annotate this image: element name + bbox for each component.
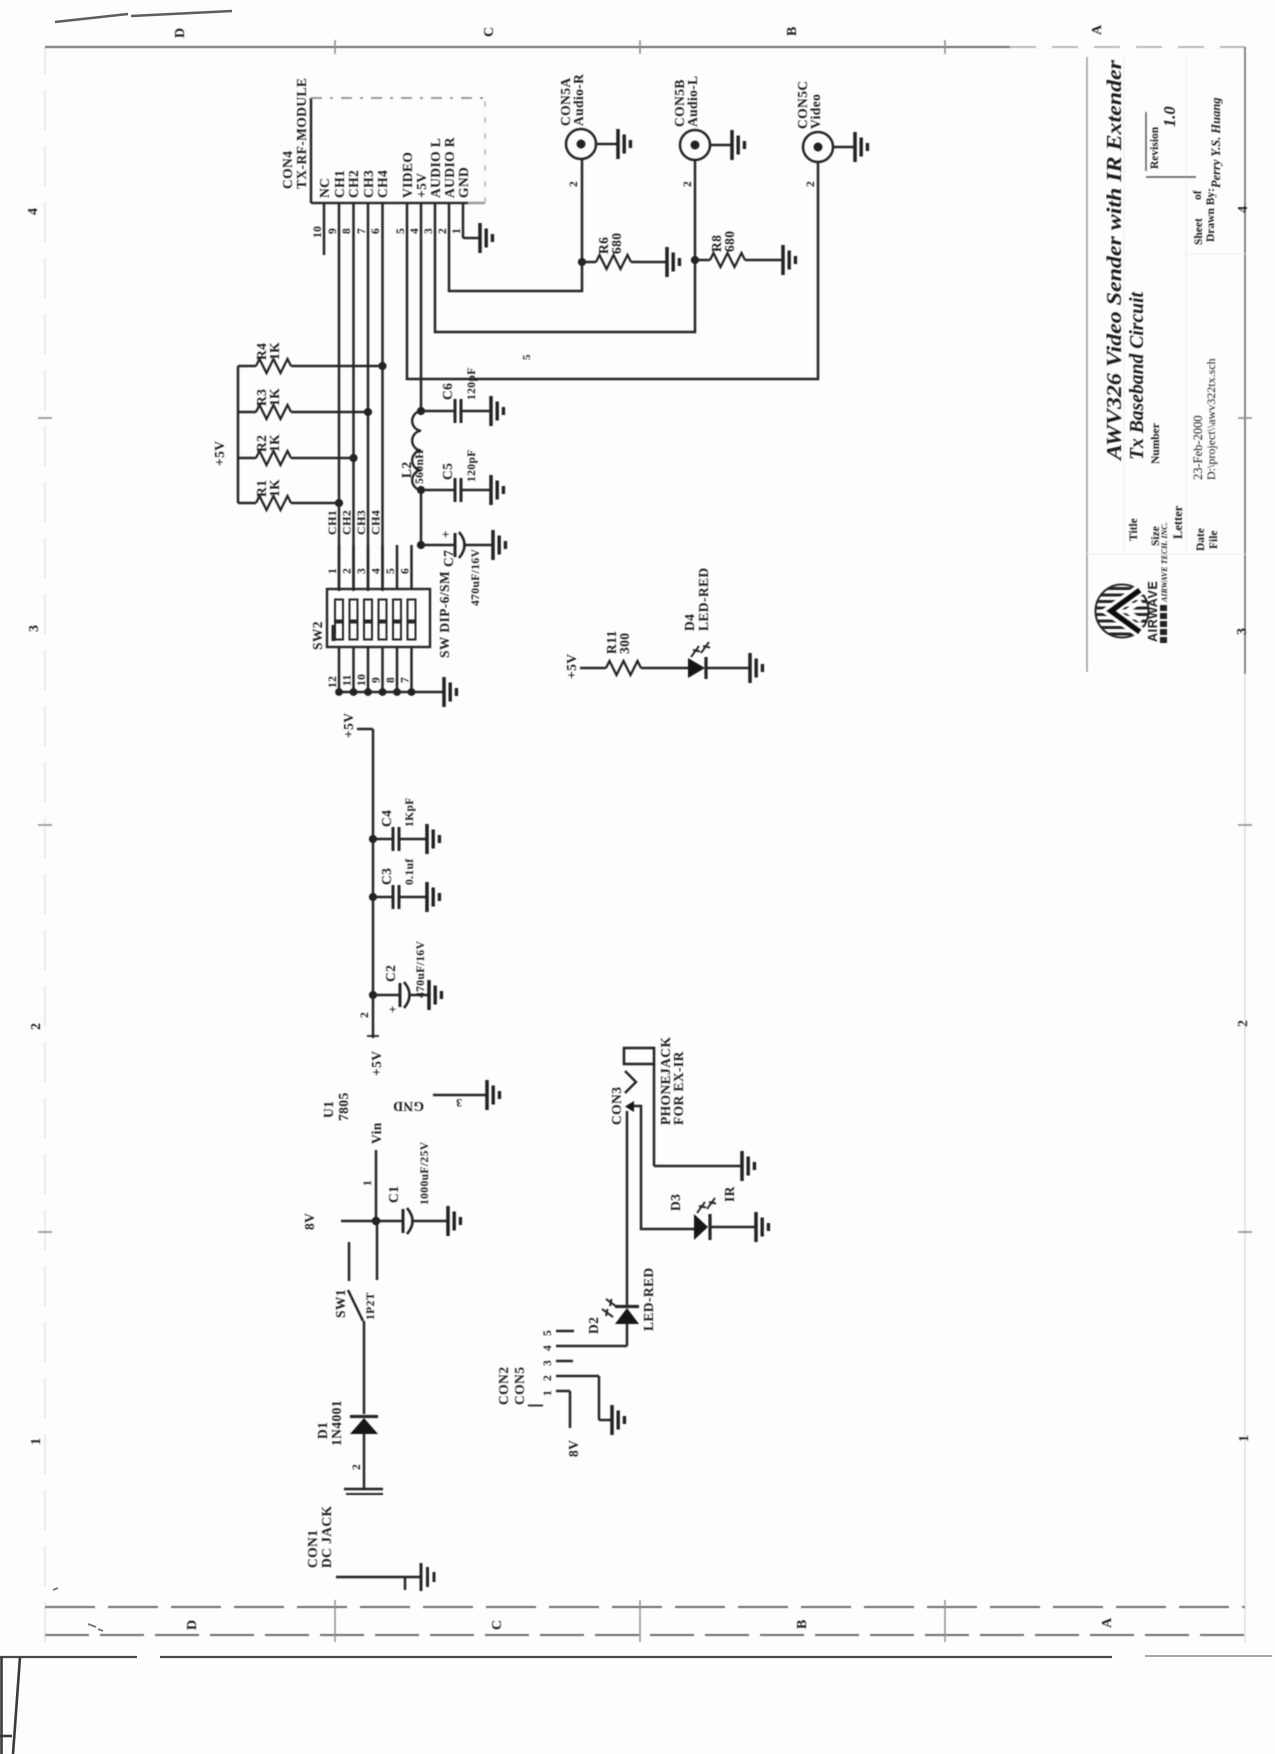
ground C6 xyxy=(491,396,503,426)
svg-text:1: 1 xyxy=(542,1390,554,1396)
wire CON3 sleeve to ground xyxy=(654,1064,742,1166)
svg-text:IR: IR xyxy=(722,1186,737,1202)
wire 8V stub xyxy=(302,1213,376,1230)
svg-text:3: 3 xyxy=(423,228,435,234)
title block text xyxy=(1102,59,1223,551)
ground CON5A xyxy=(618,129,630,159)
wire CH4 net xyxy=(381,203,384,591)
svg-text:5: 5 xyxy=(542,1330,554,1336)
ground SW2 bus xyxy=(444,677,456,707)
svg-text:CH2: CH2 xyxy=(346,170,361,198)
svg-text:4: 4 xyxy=(371,568,383,574)
svg-text:8V: 8V xyxy=(566,1440,581,1457)
svg-text:C: C xyxy=(482,27,497,37)
resistor R1 1K xyxy=(238,479,339,510)
svg-text:C1: C1 xyxy=(386,1186,401,1203)
svg-text:680: 680 xyxy=(722,231,737,252)
svg-text:SW2: SW2 xyxy=(310,621,325,650)
node C6 junction xyxy=(417,407,425,415)
svg-text:2: 2 xyxy=(437,228,449,234)
svg-text:File: File xyxy=(1208,530,1220,549)
svg-text:D: D xyxy=(173,28,188,38)
svg-text:10: 10 xyxy=(356,674,368,686)
svg-text:1: 1 xyxy=(327,568,339,574)
node R6 junction xyxy=(578,258,586,266)
svg-text:CH4: CH4 xyxy=(375,170,390,198)
svg-text:CH3: CH3 xyxy=(361,170,376,198)
svg-text:120pF: 120pF xyxy=(466,449,478,482)
svg-text:TX-RF-MODULE: TX-RF-MODULE xyxy=(294,78,309,189)
svg-text:+: + xyxy=(385,1005,400,1013)
wire L2 to C7 xyxy=(420,490,423,545)
wire +5V main rail xyxy=(341,713,379,1038)
svg-text:1: 1 xyxy=(29,1438,44,1445)
svg-text:Letter: Letter xyxy=(1171,505,1185,539)
node C7 junction xyxy=(417,541,425,549)
svg-text:120pF: 120pF xyxy=(466,367,478,400)
svg-text:23-Feb-2000: 23-Feb-2000 xyxy=(1191,415,1205,480)
svg-text:2: 2 xyxy=(29,1023,44,1030)
svg-text:1N4001: 1N4001 xyxy=(329,1400,344,1446)
svg-text:11: 11 xyxy=(342,674,354,686)
svg-text:+5V: +5V xyxy=(212,441,227,466)
wire CH1 net xyxy=(338,203,341,591)
svg-text:D2: D2 xyxy=(586,1317,601,1334)
connector CON2 CON5 xyxy=(496,1330,627,1406)
svg-text:1P2T: 1P2T xyxy=(365,1292,377,1320)
node R8 junction xyxy=(691,256,699,264)
svg-text:6: 6 xyxy=(400,568,412,574)
svg-text:1K: 1K xyxy=(267,388,282,406)
ground C5 xyxy=(491,475,503,505)
svg-text:C5: C5 xyxy=(440,463,455,480)
svg-text:B: B xyxy=(795,1620,810,1629)
node CH1 junction xyxy=(335,499,343,507)
svg-text:9: 9 xyxy=(327,228,339,234)
node Vin junction xyxy=(372,1217,381,1226)
svg-text:9: 9 xyxy=(371,677,383,683)
svg-text:L2: L2 xyxy=(399,461,414,478)
svg-text:NC: NC xyxy=(317,178,332,198)
svg-text:2: 2 xyxy=(805,181,817,187)
svg-text:A: A xyxy=(1090,24,1105,35)
svg-text:VIDEO: VIDEO xyxy=(400,152,415,198)
svg-text:CON3: CON3 xyxy=(609,1087,624,1125)
svg-text:AUDIO L: AUDIO L xyxy=(428,138,443,198)
svg-text:680: 680 xyxy=(609,233,624,254)
switch SW1 1P2T xyxy=(333,1221,377,1414)
svg-text:1K: 1K xyxy=(267,434,282,452)
svg-text:DC JACK: DC JACK xyxy=(319,1505,334,1568)
wire +5V pullup rail xyxy=(237,366,240,503)
svg-text:C4: C4 xyxy=(379,810,394,827)
capacitor C3 0.1uf xyxy=(373,858,427,909)
svg-text:1.0: 1.0 xyxy=(1160,106,1179,127)
svg-text:CON5: CON5 xyxy=(512,1367,527,1405)
wire CON3 ring to D3 xyxy=(633,1106,694,1229)
svg-text:AWV326 Video Sender with IR Ex: AWV326 Video Sender with IR Extender xyxy=(1102,59,1126,462)
svg-text:Drawn By:: Drawn By: xyxy=(1205,188,1217,242)
svg-text:2: 2 xyxy=(359,1012,371,1018)
capacitor C5 120pF xyxy=(421,449,491,502)
svg-text:1: 1 xyxy=(1237,1435,1252,1442)
svg-text:1: 1 xyxy=(451,228,463,234)
svg-text:Perry Y.S. Huang: Perry Y.S. Huang xyxy=(1209,97,1223,188)
node CH2 junction xyxy=(349,454,357,462)
ground D3 xyxy=(756,1212,768,1242)
wire AUDIO L net xyxy=(435,159,695,332)
svg-text:5: 5 xyxy=(395,228,407,234)
wire CH3 net xyxy=(367,203,370,591)
svg-text:D: D xyxy=(185,1620,200,1630)
svg-text:+: + xyxy=(438,530,453,538)
svg-text:Date: Date xyxy=(1195,528,1207,551)
svg-text:6: 6 xyxy=(370,228,382,234)
resistor R3 1K xyxy=(238,388,368,419)
svg-text:Audio-L: Audio-L xyxy=(685,75,700,127)
wire CON2 pin2 to ground xyxy=(599,1376,612,1420)
svg-text:Sheet: Sheet xyxy=(1193,218,1205,245)
LED D2 LED-RED xyxy=(586,1267,656,1334)
svg-text:AIRWAVE: AIRWAVE xyxy=(1146,581,1160,642)
svg-text:3: 3 xyxy=(1235,628,1250,635)
ground R6 xyxy=(667,247,679,277)
capacitor C6 120pF xyxy=(421,367,491,423)
svg-text:C7: C7 xyxy=(441,550,456,567)
svg-text:1KpF: 1KpF xyxy=(404,797,416,827)
svg-text:2: 2 xyxy=(568,181,580,187)
ground C1 xyxy=(448,1206,460,1236)
svg-text:0.1uf: 0.1uf xyxy=(404,858,416,885)
pin 10 NC stub xyxy=(323,203,326,255)
svg-text:CH1: CH1 xyxy=(332,170,347,198)
svg-text:C2: C2 xyxy=(383,965,398,982)
svg-text:300: 300 xyxy=(617,633,632,654)
ground CON5C xyxy=(855,132,867,162)
svg-text:1: 1 xyxy=(362,1180,374,1186)
svg-text:B: B xyxy=(785,27,800,36)
switch SW2 SW DIP-6/SM xyxy=(310,571,452,658)
svg-text:2: 2 xyxy=(682,181,694,187)
svg-text:2: 2 xyxy=(351,1464,363,1470)
wire +5V module feed xyxy=(420,203,423,411)
connector CON5B Audio-L xyxy=(672,75,732,187)
svg-text:8: 8 xyxy=(385,677,397,683)
wire CH2 net xyxy=(352,203,355,591)
LED D4 LED-RED xyxy=(682,567,750,679)
svg-text:CON2: CON2 xyxy=(496,1367,511,1405)
svg-text:4: 4 xyxy=(542,1345,554,1351)
ground C3 xyxy=(427,882,439,912)
ground CON5B xyxy=(732,130,744,160)
connector CON3 PHONEJACK FOR EX-IR xyxy=(609,1037,686,1125)
svg-text:C: C xyxy=(490,1620,505,1630)
svg-text:3: 3 xyxy=(27,625,42,632)
ground C7 xyxy=(493,530,505,560)
wire CON2 pin4 to D2 xyxy=(626,1324,629,1346)
wire D2 to CON3 tip xyxy=(626,1111,629,1307)
node C4 junction xyxy=(369,835,377,843)
resistor R8 680 xyxy=(695,231,782,267)
svg-text:3: 3 xyxy=(356,568,368,574)
ground C4 xyxy=(427,824,439,854)
svg-text:5: 5 xyxy=(385,568,397,574)
node CH4 junction xyxy=(378,362,386,370)
svg-text:7: 7 xyxy=(356,228,368,234)
svg-text:AUDIO R: AUDIO R xyxy=(442,137,457,198)
svg-text:Size: Size xyxy=(1150,526,1162,546)
svg-text:Tx Baseband Circuit: Tx Baseband Circuit xyxy=(1126,291,1148,460)
svg-text:Title: Title xyxy=(1128,518,1140,541)
svg-text:of: of xyxy=(1192,190,1204,200)
ground CON4 GND pin xyxy=(463,203,480,238)
svg-text:Number: Number xyxy=(1150,423,1162,464)
svg-text:7805: 7805 xyxy=(336,1092,351,1121)
capacitor C2 470uF/16V polarized xyxy=(373,940,429,1013)
svg-text:+5V: +5V xyxy=(414,173,429,198)
svg-text:CON1: CON1 xyxy=(305,1530,320,1568)
svg-text:CH2: CH2 xyxy=(340,510,354,535)
svg-text:7: 7 xyxy=(400,677,412,683)
svg-text:GND: GND xyxy=(393,1099,424,1114)
net labels CH1-CH4 xyxy=(325,510,383,535)
svg-text:Vin: Vin xyxy=(369,1122,384,1144)
svg-text:U1: U1 xyxy=(321,1101,336,1118)
capacitor C1 1000uF/25V polarized xyxy=(376,1141,448,1234)
wire AUDIO R net xyxy=(449,159,582,291)
wire CON2 pin1 to 8V xyxy=(566,1391,581,1457)
connector CON5C Video xyxy=(795,81,855,188)
svg-text:Video: Video xyxy=(808,94,823,129)
svg-text:8: 8 xyxy=(341,228,353,234)
svg-text:D4: D4 xyxy=(682,614,697,631)
resistor R2 1K xyxy=(238,434,354,465)
svg-text:560nH: 560nH xyxy=(414,449,426,484)
svg-text:A: A xyxy=(1100,1617,1115,1628)
svg-text:SW DIP-6/SM: SW DIP-6/SM xyxy=(437,571,452,658)
CON4 pin numbers xyxy=(312,226,463,238)
wire VIDEO net xyxy=(407,162,818,379)
svg-text:+5V: +5V xyxy=(341,713,356,738)
ground CON3 sleeve xyxy=(742,1151,754,1181)
connector CON5A Audio-R xyxy=(558,74,618,187)
node C3 junction xyxy=(369,893,377,901)
LED D3 infrared xyxy=(668,1186,756,1240)
svg-text:4: 4 xyxy=(26,208,41,215)
regulator U1 7805 xyxy=(321,1051,486,1220)
node CH3 junction xyxy=(364,408,372,416)
svg-text:CH3: CH3 xyxy=(354,510,368,535)
svg-text:3: 3 xyxy=(456,1096,462,1108)
ground R8 xyxy=(783,245,795,275)
capacitor C4 1KpF xyxy=(373,797,427,851)
ground U1 GND pin xyxy=(487,1080,499,1110)
svg-text:CH4: CH4 xyxy=(369,510,383,535)
svg-text:2: 2 xyxy=(542,1375,554,1381)
SW2 left pins 12-7 and ground bus xyxy=(327,647,443,696)
svg-text:12: 12 xyxy=(327,676,339,688)
svg-text:8V: 8V xyxy=(302,1213,317,1230)
svg-text:3: 3 xyxy=(542,1360,554,1366)
CON4 pin names xyxy=(317,137,471,198)
connector CON1 DC JACK xyxy=(305,1489,421,1590)
inductor L2 560nH xyxy=(399,411,426,490)
svg-text:470uF/16V: 470uF/16V xyxy=(470,548,482,606)
svg-text:10: 10 xyxy=(312,226,324,238)
SW2 right pins 1-6 xyxy=(327,545,412,589)
svg-text:1000uF/25V: 1000uF/25V xyxy=(419,1141,431,1205)
svg-text:+5V: +5V xyxy=(369,1051,384,1076)
svg-text:4: 4 xyxy=(1236,206,1251,213)
svg-text:D3: D3 xyxy=(668,1194,683,1211)
capacitor C7 470uF/16V polarized xyxy=(421,530,493,606)
ground D4 xyxy=(750,653,762,683)
svg-text:2: 2 xyxy=(342,568,354,574)
resistor R11 300 with +5V xyxy=(564,630,688,679)
svg-text:5: 5 xyxy=(521,354,533,360)
node C2 junction xyxy=(369,991,377,999)
ground CON1 xyxy=(421,1563,434,1591)
svg-text:Revision: Revision xyxy=(1149,126,1161,169)
logo AIRWAVE xyxy=(1096,522,1170,643)
ground CON2 pin2 xyxy=(612,1405,624,1435)
svg-text:D1: D1 xyxy=(315,1422,330,1439)
svg-text:Audio-R: Audio-R xyxy=(571,74,586,126)
diode D1 1N4001 xyxy=(315,1400,378,1489)
svg-text:D:\project\\awv322tx.sch: D:\project\\awv322tx.sch xyxy=(1204,358,1218,480)
svg-text:2: 2 xyxy=(1236,1020,1251,1027)
svg-text:C6: C6 xyxy=(440,383,455,400)
svg-text:LED-RED: LED-RED xyxy=(696,567,711,631)
connector CON4 TX-RF-MODULE xyxy=(280,78,485,203)
svg-text:4: 4 xyxy=(409,228,421,234)
resistor R4 1K xyxy=(238,342,383,373)
svg-text:1K: 1K xyxy=(267,479,282,497)
node C5 junction xyxy=(417,486,425,494)
svg-text:FOR EX-IR: FOR EX-IR xyxy=(671,1051,686,1125)
svg-text:GND: GND xyxy=(456,167,471,198)
svg-text:470uF/16V: 470uF/16V xyxy=(415,940,427,998)
svg-text:LED-RED: LED-RED xyxy=(641,1267,656,1331)
svg-text:CON4: CON4 xyxy=(280,151,295,189)
svg-text:1K: 1K xyxy=(267,342,282,360)
ground C2 xyxy=(429,980,441,1010)
svg-text:C3: C3 xyxy=(379,868,394,885)
resistor R6 680 xyxy=(582,233,666,269)
svg-text:+5V: +5V xyxy=(564,654,579,679)
svg-text:CH1: CH1 xyxy=(325,510,339,535)
svg-text:SW1: SW1 xyxy=(333,1289,348,1318)
